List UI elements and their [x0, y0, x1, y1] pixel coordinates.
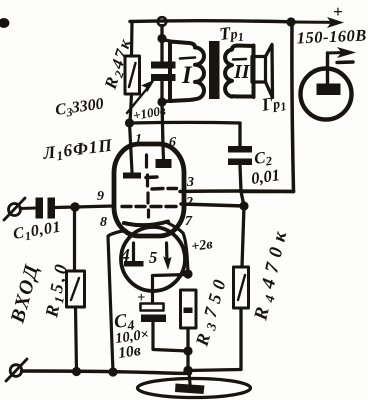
svg-text:R15,0: R15,0	[41, 260, 73, 320]
node: dot pin2/R4 junction	[239, 201, 248, 210]
input terminal bottom	[6, 359, 27, 381]
node: dot cathode network junction	[183, 269, 192, 278]
control grid (pins 9 / 2, dashed)	[122, 205, 176, 208]
svg-text:I: I	[181, 62, 193, 89]
wire C1 to grid pin 9	[55, 206, 114, 208]
capacitor C2	[228, 123, 252, 192]
power source G1 (circle with battery bar and arrow)	[301, 47, 357, 120]
wire right bus down	[292, 22, 294, 191]
svg-text:Л16Ф1П: Л16Ф1П	[41, 135, 115, 166]
capacitor C3	[151, 62, 176, 103]
wire terminal to C1	[20, 207, 36, 211]
node: junction dot top right	[286, 17, 295, 26]
svg-text:R3750: R3750	[191, 272, 233, 349]
wire top supply bus	[130, 21, 291, 22]
node: dot C4/R3 junction	[183, 346, 192, 355]
svg-text:10в: 10в	[117, 342, 142, 362]
internal shield (dashed divider)	[147, 155, 149, 217]
svg-text:R4470к: R4470к	[250, 223, 293, 323]
node: dot ground junction	[183, 366, 192, 375]
node: dot pin8/bus	[108, 367, 117, 376]
heater pin 4 terminal	[124, 243, 144, 267]
tube Л1 6Ф1П envelope	[114, 144, 184, 236]
resistor R4	[234, 267, 249, 370]
svg-text:7: 7	[185, 214, 193, 229]
node: dot grid/R1 junction	[70, 202, 79, 211]
wire pin 8 cathode down to ground bus	[108, 231, 126, 373]
transformer winding II + speaker loop	[225, 46, 253, 98]
wire horizontal R2-node to C2	[130, 121, 240, 125]
node: dot winding-I bottom	[157, 97, 166, 106]
svg-text:5: 5	[149, 248, 157, 267]
node: dot at R2/pin1/C2 junction	[125, 118, 134, 127]
resistor R1	[67, 207, 85, 371]
triode anode (pin 1)	[123, 123, 141, 179]
svg-text:ВХОД: ВХОД	[6, 261, 43, 326]
resistor R2	[125, 22, 140, 124]
transformer Tp1 winding I	[162, 40, 204, 102]
screen grid pin 3 (dashed)	[152, 187, 177, 191]
svg-text:150-160В: 150-160В	[296, 25, 367, 47]
wire + arrow to supply	[291, 21, 335, 24]
wire pin 2 to R4 node	[181, 204, 244, 206]
loudspeaker Гр1	[252, 45, 273, 98]
heater circle	[121, 227, 185, 291]
wire ground bus bottom	[22, 371, 191, 373]
wire cathode node to C4	[153, 275, 189, 304]
wire from bus circle down	[160, 26, 163, 62]
svg-text:0,01: 0,01	[250, 165, 281, 188]
node: dot at winding-I top branch	[157, 34, 166, 43]
svg-text:6: 6	[169, 135, 176, 150]
svg-text:1: 1	[135, 132, 142, 147]
svg-text:II: II	[233, 61, 251, 83]
svg-text:2: 2	[185, 195, 193, 210]
capacitor C1	[36, 198, 56, 219]
svg-text:С10,01: С10,01	[12, 219, 63, 245]
svg-text:8: 8	[100, 215, 107, 230]
svg-text:+: +	[137, 290, 145, 306]
capacitor C4 (electrolytic)	[141, 304, 189, 352]
input terminal top	[4, 198, 25, 220]
wire C3 node down to pin 6	[162, 102, 163, 146]
bullet dot (list marker) top-left	[0, 18, 9, 28]
wire corner from right bus to C2/R4 column	[241, 190, 294, 194]
heater pin 5 arrow	[163, 243, 172, 270]
node: junction circle on bus (C3 branch)	[158, 17, 167, 26]
chassis ground symbol	[138, 371, 251, 398]
pentode anode (pin 6)	[156, 146, 172, 168]
grid dash (triode)	[146, 175, 157, 179]
wire R4 bottom to ground node	[188, 370, 241, 371]
resistor R3	[181, 290, 197, 370]
svg-text:3: 3	[186, 175, 194, 190]
svg-text:Тр1: Тр1	[218, 22, 244, 46]
transformer core	[209, 41, 220, 99]
svg-text:+: +	[333, 2, 343, 21]
svg-text:С33300: С33300	[54, 95, 105, 121]
svg-text:+2в: +2в	[190, 237, 214, 255]
wire pin 3 to right bus	[180, 189, 294, 193]
node: dot R1/bus	[72, 367, 81, 376]
svg-text:R247к: R247к	[100, 35, 137, 93]
svg-text:9: 9	[97, 189, 104, 204]
svg-text:4: 4	[120, 245, 130, 265]
wire C2 junction down to R4	[241, 192, 244, 268]
wire pin 7 cathode down	[167, 223, 188, 275]
cathode bar	[124, 222, 168, 226]
